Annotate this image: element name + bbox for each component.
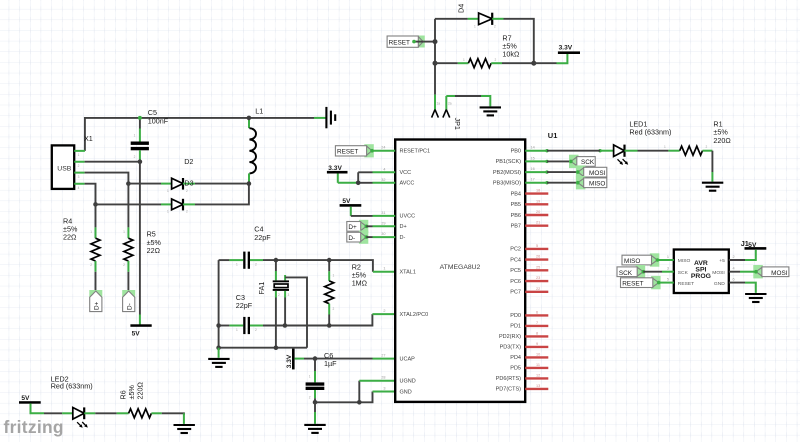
- svg-text:2: 2: [186, 210, 188, 214]
- U1 pin UCAP (27): [381, 354, 415, 363]
- svg-text:1: 1: [667, 255, 669, 259]
- svg-text:19: 19: [536, 199, 540, 203]
- capacitor C3 22pF: [236, 293, 257, 334]
- svg-text:SCK: SCK: [581, 159, 595, 166]
- ground (JP1): [480, 107, 501, 115]
- node UGND branch: [357, 400, 362, 405]
- svg-text:PD2(RX): PD2(RX): [499, 334, 521, 340]
- svg-text:U1: U1: [548, 131, 558, 140]
- svg-text:PD0: PD0: [510, 313, 521, 319]
- flag D+ (at IC): [347, 220, 369, 233]
- svg-text:1: 1: [134, 134, 136, 138]
- svg-text:MOSI: MOSI: [712, 270, 725, 276]
- U1 pin PC4 (26): [510, 255, 548, 264]
- svg-text:MOSI: MOSI: [771, 270, 788, 277]
- svg-text:2: 2: [333, 307, 335, 311]
- wire USB pin3 jog down: [85, 173, 129, 184]
- ground (under R1): [702, 183, 723, 191]
- svg-text:3: 3: [288, 293, 290, 297]
- ground (J1): [745, 294, 766, 302]
- svg-text:4: 4: [383, 167, 385, 171]
- svg-text:PC7: PC7: [510, 290, 521, 296]
- crystal FA1: [257, 260, 307, 348]
- resistor R4 22R: [63, 204, 100, 290]
- ground chassis (top, rotated earth): [326, 107, 335, 128]
- wire GND row: [729, 278, 756, 293]
- node D3 row left: [126, 181, 131, 186]
- svg-text:2: 2: [383, 309, 385, 313]
- flag D- (at IC): [347, 231, 369, 244]
- IC U1 ATMEGA8U2: [395, 131, 557, 402]
- net 3.3V (at VCC): [327, 165, 348, 183]
- svg-text:PD6(RTS): PD6(RTS): [496, 376, 521, 382]
- U1 pin PD7/CTS (13): [496, 384, 549, 393]
- svg-text:2: 2: [123, 263, 125, 267]
- U1 pin D+ (29): [366, 221, 406, 230]
- svg-text:24: 24: [381, 146, 385, 150]
- svg-text:AVCC: AVCC: [400, 181, 415, 187]
- svg-text:2: 2: [134, 155, 136, 159]
- svg-text:GND: GND: [714, 281, 725, 287]
- connector J1 AVR SPI PROG: [674, 250, 729, 294]
- svg-text:16: 16: [531, 167, 535, 171]
- U1 pin XTAL2/PC0 (2): [383, 309, 428, 318]
- wire R1 to ground: [711, 151, 713, 182]
- svg-text:MISO: MISO: [589, 181, 605, 188]
- svg-text:XTAL1: XTAL1: [400, 270, 416, 276]
- svg-text:SCK: SCK: [678, 270, 689, 276]
- svg-text:29: 29: [381, 221, 385, 225]
- LED LED2 Red: [51, 375, 96, 428]
- U1 pin PD5 (11): [510, 363, 548, 372]
- svg-text:UVCC: UVCC: [400, 214, 416, 220]
- svg-text:PB7: PB7: [511, 224, 521, 230]
- svg-text:15: 15: [531, 156, 535, 160]
- resistor R1 220R: [638, 119, 732, 155]
- node AVCC junction: [356, 181, 361, 186]
- svg-text:PD4: PD4: [510, 355, 521, 361]
- ground (under C3 rail): [208, 359, 229, 367]
- flag D+ (pentagon, under R4): [89, 290, 102, 312]
- U1 pin XTAL1 (1): [383, 267, 416, 276]
- wire SCK flag to J1: [643, 267, 674, 272]
- svg-text:D+: D+: [348, 224, 357, 231]
- U1 pin VCC (4): [358, 167, 411, 176]
- svg-text:1: 1: [123, 230, 125, 234]
- U1 pin PD3/TX (9): [500, 342, 549, 351]
- capacitor C4 22pF: [236, 225, 271, 269]
- flag SCK (at PB1): [569, 155, 595, 168]
- svg-text:RESET: RESET: [678, 281, 694, 287]
- U1 pin PD6/RTS (12): [496, 373, 549, 382]
- node UCAP/C6: [313, 356, 318, 361]
- resistor R5 22R: [123, 184, 161, 291]
- svg-text:1: 1: [474, 24, 476, 28]
- svg-text:12: 12: [536, 373, 540, 377]
- svg-text:MISO: MISO: [678, 258, 691, 264]
- svg-text:RESET: RESET: [622, 281, 643, 288]
- svg-text:D-: D-: [400, 235, 406, 241]
- svg-text:22: 22: [536, 287, 540, 291]
- svg-text:D+: D+: [94, 301, 101, 310]
- svg-text:3: 3: [667, 267, 669, 271]
- node L1 bottom / D3 row: [247, 181, 252, 186]
- svg-text:PB3(MISO): PB3(MISO): [493, 181, 521, 187]
- svg-text:3.3V: 3.3V: [286, 354, 293, 368]
- svg-text:PC4: PC4: [510, 257, 521, 263]
- svg-text:+5: +5: [719, 258, 725, 264]
- svg-text:10: 10: [536, 352, 540, 356]
- svg-text:X1: X1: [84, 134, 93, 143]
- svg-text:PB5: PB5: [511, 202, 521, 208]
- svg-text:PB4: PB4: [511, 191, 521, 197]
- wire node to 3.3V: [534, 54, 568, 63]
- svg-text:4: 4: [78, 186, 80, 190]
- svg-text:9: 9: [536, 342, 538, 346]
- U1 pin PD4 (10): [510, 352, 548, 361]
- U1 pin PC5 (25): [510, 265, 548, 274]
- svg-text:32: 32: [381, 178, 385, 182]
- svg-text:22pF: 22pF: [236, 301, 253, 310]
- svg-text:D-: D-: [127, 303, 134, 310]
- svg-text:11: 11: [536, 363, 540, 367]
- resistor R6 220R: [95, 382, 184, 418]
- svg-text:2: 2: [494, 24, 496, 28]
- svg-text:1: 1: [167, 210, 169, 214]
- svg-text:2: 2: [495, 58, 497, 62]
- svg-text:4: 4: [733, 267, 735, 271]
- svg-text:1: 1: [383, 267, 385, 271]
- svg-text:2: 2: [278, 293, 280, 297]
- node C3/R2 bottom: [327, 323, 332, 328]
- U1 pin PB5 (19): [511, 199, 549, 208]
- svg-text:RESET/PC1: RESET/PC1: [400, 149, 431, 155]
- svg-text:5: 5: [536, 244, 538, 248]
- LED LED1 Red: [600, 119, 671, 165]
- wire +5 row: [729, 250, 756, 260]
- svg-text:1: 1: [309, 375, 311, 379]
- node C4/R2 top: [327, 258, 332, 263]
- net 5V (below R5): [130, 324, 151, 337]
- svg-text:1: 1: [167, 189, 169, 193]
- flag MISO (at PB3): [576, 176, 607, 189]
- U1 pin UVCC (31): [351, 211, 415, 220]
- svg-text:Red (633nm): Red (633nm): [51, 382, 93, 391]
- svg-text:PC6: PC6: [510, 279, 521, 285]
- svg-text:JP1: JP1: [453, 118, 462, 130]
- flag D- (pentagon, under R5): [122, 290, 135, 312]
- svg-text:MOSI: MOSI: [589, 170, 606, 177]
- svg-text:PC2: PC2: [510, 247, 521, 253]
- node C5 top on rail: [138, 116, 142, 120]
- inductor L1: [249, 107, 263, 184]
- flag MOSI (right): [753, 265, 789, 278]
- svg-text:D4: D4: [457, 4, 466, 13]
- flag RESET (at J1): [621, 276, 661, 289]
- net 3.3V (top): [558, 44, 580, 54]
- wire MOSI row: [729, 267, 756, 272]
- svg-text:3: 3: [78, 175, 80, 179]
- resistor R2 1M: [325, 260, 368, 325]
- wire C4-C3 left vertical: [218, 260, 220, 348]
- node RESET/R7: [433, 61, 438, 66]
- svg-text:SCK: SCK: [619, 270, 633, 277]
- U1 pin D- (30): [366, 232, 405, 241]
- U1 pin PD2/RX (8): [499, 331, 548, 340]
- wire JP1 pin2 to ground: [446, 96, 490, 106]
- svg-text:1: 1: [90, 230, 92, 234]
- resistor R7 10k: [435, 34, 534, 68]
- connector JP1 pin2: [443, 96, 450, 118]
- svg-text:PD7(CTS): PD7(CTS): [496, 387, 522, 393]
- U1 pin PB0 (14): [511, 146, 602, 155]
- svg-text:D3: D3: [184, 179, 193, 188]
- U1 pin PD1 (7): [510, 321, 548, 330]
- net 3.3V (rotated, at C6): [286, 349, 295, 370]
- wire USB pin2 to C5 junction: [85, 161, 140, 163]
- svg-text:5: 5: [667, 278, 669, 282]
- U1 pin PB4 (18): [511, 189, 549, 198]
- U1 pin PB7 (21): [511, 221, 549, 230]
- U1 pin UGND (28): [381, 376, 415, 385]
- svg-text:USB: USB: [57, 165, 71, 172]
- svg-text:28: 28: [381, 376, 385, 380]
- svg-text:2: 2: [309, 396, 311, 400]
- diode D2 (lower): [96, 184, 249, 214]
- connector JP1 pin1: [432, 110, 439, 118]
- svg-text:ATMEGA8U2: ATMEGA8U2: [440, 264, 481, 271]
- svg-text:1: 1: [664, 145, 666, 149]
- svg-text:20: 20: [536, 210, 540, 214]
- svg-text:14: 14: [531, 146, 535, 150]
- svg-text:PD1: PD1: [510, 324, 521, 330]
- svg-text:18: 18: [536, 189, 540, 193]
- ground (under C6): [304, 425, 325, 433]
- node C6 bottom: [313, 400, 318, 405]
- node rail left: [216, 345, 221, 350]
- wire RESET vertical: [434, 19, 436, 110]
- wire C3 row (XTAL2 row): [219, 314, 396, 325]
- wire RESET flag to node: [423, 41, 435, 43]
- svg-text:17: 17: [531, 178, 535, 182]
- svg-text:23: 23: [536, 276, 540, 280]
- flag MOSI (at PB2): [576, 165, 607, 178]
- wire UCAP row: [315, 358, 395, 360]
- svg-text:XTAL2/PC0: XTAL2/PC0: [400, 312, 429, 318]
- svg-text:MISO: MISO: [624, 258, 640, 265]
- svg-text:D+: D+: [400, 224, 407, 230]
- wire 5V to LED2: [31, 404, 63, 414]
- wire top rail VBUS: [85, 118, 326, 151]
- wire rail to ground: [218, 348, 220, 358]
- svg-text:FA1: FA1: [257, 282, 266, 295]
- wire USB pin4 jog down: [85, 184, 96, 205]
- svg-text:2: 2: [90, 263, 92, 267]
- svg-text:GND: GND: [400, 389, 412, 395]
- wire RESET flag to J1: [659, 278, 674, 283]
- svg-text:10kΩ: 10kΩ: [502, 49, 520, 58]
- diode D4: [435, 4, 534, 63]
- wire GND row to IC: [315, 392, 395, 403]
- svg-text:PD3(TX): PD3(TX): [500, 345, 522, 351]
- U1 pin AVCC (32): [338, 172, 415, 186]
- svg-text:1MΩ: 1MΩ: [352, 279, 368, 288]
- svg-text:VCC: VCC: [400, 170, 412, 176]
- svg-text:7: 7: [536, 321, 538, 325]
- svg-text:1: 1: [463, 58, 465, 62]
- diode D3: [128, 157, 249, 193]
- U1 pin RESET/PC1 (24): [381, 146, 430, 155]
- net 5V (at LED2): [19, 395, 41, 404]
- node C3/crystal bottom: [283, 323, 288, 328]
- svg-text:220Ω: 220Ω: [135, 382, 144, 400]
- wire MISO flag to J1: [657, 255, 673, 260]
- svg-text:2: 2: [78, 164, 80, 168]
- svg-text:2: 2: [255, 263, 257, 267]
- U1 pin PB2/MOSI (16): [493, 167, 577, 176]
- U1 pin PB6 (20): [511, 210, 549, 219]
- svg-text:5V: 5V: [748, 242, 757, 249]
- svg-text:5V: 5V: [21, 395, 30, 402]
- svg-text:PC5: PC5: [510, 268, 521, 274]
- svg-text:25: 25: [536, 265, 540, 269]
- flag RESET (top): [387, 36, 425, 48]
- U1 pin PC7 (22): [510, 287, 548, 296]
- svg-text:22Ω: 22Ω: [63, 233, 77, 242]
- svg-text:1a: 1a: [437, 102, 441, 106]
- svg-text:26: 26: [536, 255, 540, 259]
- svg-text:31: 31: [381, 211, 385, 215]
- svg-text:PD5: PD5: [510, 366, 521, 372]
- U1 pin PB1/SCK (15): [496, 156, 571, 165]
- svg-text:Red (633nm): Red (633nm): [629, 128, 671, 137]
- svg-text:30: 30: [381, 232, 385, 236]
- svg-text:5V: 5V: [342, 198, 351, 205]
- wire C6 to ground: [314, 402, 316, 424]
- svg-text:100nF: 100nF: [148, 116, 169, 125]
- svg-text:22pF: 22pF: [254, 233, 271, 242]
- net J1 5V: [741, 239, 767, 250]
- capacitor C6 1uF: [306, 351, 338, 402]
- svg-text:2: 2: [733, 255, 735, 259]
- svg-text:PB6: PB6: [511, 213, 521, 219]
- svg-text:8: 8: [536, 331, 538, 335]
- svg-text:220Ω: 220Ω: [713, 136, 731, 145]
- node C3 left corner: [216, 323, 221, 328]
- svg-text:UGND: UGND: [400, 379, 416, 385]
- svg-text:2: 2: [186, 189, 188, 193]
- svg-text:22Ω: 22Ω: [147, 246, 161, 255]
- svg-text:RESET: RESET: [389, 39, 410, 46]
- node L1 top on rail: [247, 116, 252, 121]
- svg-text:21: 21: [536, 221, 540, 225]
- svg-text:PB0: PB0: [511, 149, 521, 155]
- capacitor C5 100nF: [131, 108, 169, 162]
- node RESET/flag: [433, 39, 438, 44]
- U1 pin PC6 (23): [510, 276, 548, 285]
- svg-text:6: 6: [536, 310, 538, 314]
- wire 3.3V to UCAP node: [295, 358, 315, 360]
- wire UGND jog: [359, 381, 395, 403]
- svg-text:6: 6: [733, 278, 735, 282]
- U1 pin PC2 (5): [510, 244, 548, 253]
- svg-text:3: 3: [383, 387, 385, 391]
- U1 pin PB3/MISO (17): [493, 178, 577, 187]
- node R7/D4 right: [531, 61, 536, 66]
- svg-text:PROG: PROG: [691, 273, 711, 280]
- svg-text:3.3V: 3.3V: [559, 44, 573, 51]
- net 5V (at UVCC): [340, 198, 362, 216]
- wire R6 to ground: [183, 413, 185, 424]
- wire 5V drop from pin2 junction: [139, 162, 141, 325]
- svg-text:D2: D2: [184, 157, 193, 166]
- flag RESET (at U1): [335, 144, 373, 157]
- flag MISO (at J1): [622, 253, 659, 266]
- ground (below R6): [174, 425, 195, 433]
- svg-text:27: 27: [381, 354, 385, 358]
- svg-text:5V: 5V: [132, 330, 141, 337]
- wire RESET flag to U1: [372, 150, 395, 152]
- svg-text:PB2(MOSI): PB2(MOSI): [493, 170, 521, 176]
- svg-text:2: 2: [706, 145, 708, 149]
- connector X1 USB: [52, 134, 93, 190]
- svg-text:fritzing: fritzing: [4, 417, 64, 437]
- svg-text:2: 2: [255, 328, 257, 332]
- svg-text:2a: 2a: [448, 102, 452, 106]
- svg-text:PB1(SCK): PB1(SCK): [496, 159, 522, 165]
- svg-text:1: 1: [333, 274, 335, 278]
- svg-text:L1: L1: [255, 107, 263, 116]
- svg-text:13: 13: [536, 384, 540, 388]
- svg-text:UCAP: UCAP: [400, 356, 416, 362]
- U1 pin GND (3): [383, 387, 411, 396]
- node rail crystal pin: [274, 345, 279, 350]
- svg-text:1µF: 1µF: [324, 359, 337, 368]
- svg-text:1: 1: [78, 153, 80, 157]
- U1 pin PD0 (6): [510, 310, 548, 319]
- node C4/crystal top: [274, 258, 279, 263]
- wire ground rail under crystal: [219, 347, 307, 349]
- svg-text:3.3V: 3.3V: [328, 165, 342, 172]
- svg-text:1: 1: [236, 328, 238, 332]
- svg-text:RESET: RESET: [337, 149, 358, 156]
- flag SCK (at J1): [617, 265, 645, 278]
- node D2 row left: [93, 202, 98, 207]
- svg-text:1: 1: [236, 263, 238, 267]
- node C5 bottom / USB pin2: [138, 159, 143, 164]
- svg-text:D-: D-: [348, 235, 355, 242]
- wire XTAL1 row (C4 row): [219, 260, 396, 272]
